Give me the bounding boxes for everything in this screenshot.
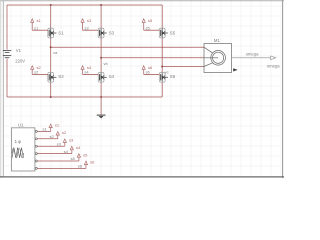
svg-text:M1: M1 (214, 38, 221, 43)
wire: s3 from U1 pin 3 (37, 145, 65, 147)
junction: bottom rail / leg 1 (50, 96, 52, 98)
transistor S5 (IGBT) (159, 28, 168, 38)
PWM generator block U1 (12, 128, 35, 171)
signal-label arrow s3 (63, 139, 66, 143)
wire: phase a from leg 1 to motor input (51, 46, 204, 48)
wire: s2 riser (57, 135, 59, 139)
transistor S2 (IGBT) (48, 72, 57, 82)
omega signal arrow (open head) (271, 56, 276, 60)
svg-text:S3: S3 (109, 30, 115, 35)
svg-text:S4: S4 (109, 74, 115, 79)
wire: s1 from U1 pin 1 (37, 130, 50, 132)
signal-label arrow s6 (84, 161, 87, 165)
svg-text:vc: vc (165, 70, 169, 75)
signal-label arrow s1 (gate source tag) (31, 19, 34, 30)
signal-label arrow s5 (77, 154, 80, 158)
wire: s6 from U1 pin 6 (37, 167, 86, 169)
svg-text:omega: omega (246, 52, 259, 57)
wire: gate lead into S5 (144, 29, 160, 31)
wire: leg 2 from S4 emitter to bottom rail (100, 82, 102, 97)
transistor S3 (IGBT) (98, 28, 107, 38)
svg-text:U1: U1 (18, 122, 24, 127)
svg-text:S2: S2 (58, 74, 64, 79)
wire: ground drop from bottom rail (100, 97, 102, 115)
wire: leg 3 from S6 emitter to bottom rail (161, 82, 163, 97)
wire: leg 1 from S2 emitter to bottom rail (50, 82, 52, 97)
U1 output pin 4 (35, 153, 37, 155)
junction: top rail / leg 2 (100, 4, 102, 6)
svg-text:S6: S6 (170, 74, 176, 79)
wire: leg 1 from top rail to S1 collector (50, 5, 52, 28)
wire: leg 2 from top rail to S3 collector (100, 5, 102, 28)
signal-label arrow s1 (49, 124, 52, 128)
wire: phase b from leg 2 to motor input (101, 57, 204, 59)
wire: omega speed signal from M1 (232, 57, 271, 59)
svg-text:220V: 220V (15, 58, 25, 63)
wire: gate lead into S1 (32, 29, 48, 31)
junction: bottom rail / leg 2 (100, 96, 102, 98)
voltage source V1 (battery) (3, 51, 11, 58)
junction: top rail / leg 1 (50, 4, 52, 6)
U1 output pin 1 (35, 130, 37, 132)
wire: negative DC bus drop from V1 to bottom rail (6, 59, 8, 97)
signal-label arrow s6 (gate source tag) (142, 66, 145, 75)
wire: leg 3 midsection S5 emitter to S6 collector (161, 38, 163, 73)
svg-text:omega: omega (267, 63, 280, 68)
transistor S1 (IGBT) (48, 28, 57, 38)
svg-text:S5: S5 (170, 30, 176, 35)
junction: phase c tap on leg 3 (161, 66, 163, 68)
wire: top DC rail (7, 4, 162, 6)
wire: s1 riser (50, 127, 52, 131)
wire: leg 1 midsection S1 emitter to S2 collector (50, 38, 52, 73)
signal-label arrow s5 (gate source tag) (142, 19, 145, 30)
page background (0, 0, 284, 178)
wire: phase c from leg 3 to motor input (162, 66, 204, 68)
svg-text:V1: V1 (16, 48, 22, 53)
signal-label arrow s2 (56, 132, 59, 136)
wire: leg 2 midsection S3 emitter to S4 collector (100, 38, 102, 73)
wire: s6 riser (85, 164, 87, 168)
U1 output pin 6 (35, 167, 37, 169)
wire: gate lead into S2 (32, 74, 48, 76)
junction: phase a tap on leg 1 (50, 46, 52, 48)
transistor S6 (IGBT) (159, 72, 168, 82)
motor block M1 (204, 44, 232, 73)
U1 output pin 3 (35, 145, 37, 147)
junction: phase b tap on leg 2 (100, 57, 102, 59)
wire: gate lead into S3 (83, 29, 99, 31)
U1 output pin 2 (35, 138, 37, 140)
wire: s5 from U1 pin 5 (37, 160, 79, 162)
wire: s3 riser (64, 142, 66, 146)
wire: bottom DC rail (7, 96, 162, 98)
signal-label arrow s2 (gate source tag) (31, 66, 34, 75)
wire: gate lead into S6 (144, 74, 160, 76)
transistor S4 (IGBT) (98, 72, 107, 82)
signal-label arrow s3 (gate source tag) (81, 19, 84, 30)
signal-label arrow s4 (gate source tag) (81, 66, 84, 75)
wire: s4 from U1 pin 4 (37, 153, 72, 155)
wire: s5 riser (78, 157, 80, 161)
wire: s4 riser (71, 150, 73, 154)
schematic frame border (0, 0, 284, 178)
wire: positive DC bus riser from V1 to top rail (6, 5, 8, 50)
wire: s2 from U1 pin 2 (37, 138, 57, 140)
U1 output pin 5 (35, 160, 37, 162)
wire: gate lead into S4 (83, 74, 99, 76)
M1 shaft speed output port (filled arrow) (233, 68, 237, 71)
wire: leg 3 from top rail to S5 collector (161, 5, 163, 28)
signal-label arrow s4 (70, 146, 73, 150)
ground symbol (97, 115, 106, 118)
svg-text:1 φ: 1 φ (15, 139, 22, 144)
svg-text:S1: S1 (58, 30, 64, 35)
